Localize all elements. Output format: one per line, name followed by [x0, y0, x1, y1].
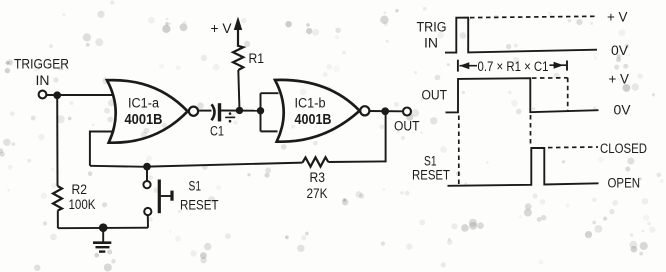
svg-text:RESET: RESET [180, 198, 219, 213]
svg-text:OUT: OUT [422, 88, 448, 103]
wire R1 branch [238, 70, 239, 110]
svg-text:0.7 × R1 × C1: 0.7 × R1 × C1 [478, 59, 549, 74]
waveform TRIG +V dashed level [470, 16, 596, 17]
capacitor C1 [210, 103, 235, 138]
node junction output [381, 107, 389, 115]
op-amp gate IC1-a (NOR 4001B) [107, 80, 188, 143]
svg-text:TRIG: TRIG [417, 20, 447, 35]
svg-text:IC1-a: IC1-a [128, 96, 159, 111]
node gate2 output bubble [360, 106, 369, 115]
svg-text:CLOSED: CLOSED [600, 141, 647, 156]
svg-text:+ V: + V [211, 20, 233, 36]
svg-text:S1: S1 [424, 154, 437, 169]
node junction C1-R1 [236, 107, 243, 114]
svg-text:4001B: 4001B [125, 111, 163, 128]
dashed vertical trigger edge [458, 116, 460, 185]
wire capacitor to node [221, 110, 261, 112]
svg-text:R1: R1 [249, 51, 265, 66]
wire junction down to R2 [56, 95, 58, 186]
wire feedback rail to R3 [147, 163, 303, 167]
wire gate1 bottom input feedback [90, 132, 114, 166]
wire gate2 input bracket [261, 93, 279, 131]
wire gate2 output [370, 110, 403, 112]
wire bottom rail [58, 227, 148, 230]
wire gate1 output to capacitor [198, 110, 212, 112]
wire R2 bottom to ground rail [57, 211, 59, 229]
node junction ground [99, 223, 108, 232]
svg-text:R2: R2 [72, 182, 88, 197]
waveform OUT dashed extension top [532, 77, 568, 79]
svg-text:0V: 0V [614, 103, 631, 118]
waveform OUT trace [446, 78, 599, 112]
ground [93, 228, 111, 252]
svg-text:R3: R3 [310, 170, 326, 185]
svg-text:0V: 0V [611, 43, 628, 58]
wire trigger input to gate1 [47, 94, 114, 96]
svg-text:IN: IN [424, 36, 438, 51]
node junction trigger [53, 91, 61, 99]
node gate1 output bubble [189, 107, 198, 116]
svg-text:27K: 27K [307, 186, 328, 201]
dashed vertical out fall to S1 pulse [530, 115, 532, 147]
node TRIGGER IN label [14, 56, 69, 89]
svg-text:RESET: RESET [412, 168, 450, 183]
waveform S1 dashed CLOSED level [548, 146, 598, 149]
wire R3 to output node [328, 114, 385, 162]
svg-text:C1: C1 [210, 124, 224, 139]
svg-text:IC1-b: IC1-b [295, 96, 326, 111]
svg-text:+ V: + V [609, 72, 630, 87]
switch S1 pushbutton [143, 167, 218, 228]
waveform TRIG IN trace [445, 18, 597, 53]
resistor R1 [233, 30, 243, 70]
svg-text:+ V: + V [607, 10, 628, 25]
svg-text:S1: S1 [189, 179, 202, 194]
svg-text:IN: IN [36, 72, 50, 88]
resistor R3 [303, 157, 329, 167]
dimension 0.7 x R1 x C1 [458, 59, 567, 74]
svg-text:4001B: 4001B [295, 111, 332, 128]
power +V arrow [211, 17, 243, 37]
svg-text:100K: 100K [69, 197, 96, 212]
terminal OUT [403, 108, 411, 116]
op-amp gate IC1-b (NOR 4001B) [275, 80, 360, 142]
svg-text:TRIGGER: TRIGGER [14, 56, 69, 72]
svg-text:OUT: OUT [394, 119, 420, 134]
node junction gate2 input [257, 107, 264, 114]
waveform S1 trace [448, 148, 599, 186]
svg-text:OPEN: OPEN [608, 176, 641, 191]
wire feedback rail left segment [90, 166, 147, 167]
node junction S1 [143, 163, 151, 171]
waveform OUT dashed fall [567, 78, 569, 111]
resistor R2 [53, 186, 62, 211]
terminal TRIGGER IN [39, 91, 47, 99]
